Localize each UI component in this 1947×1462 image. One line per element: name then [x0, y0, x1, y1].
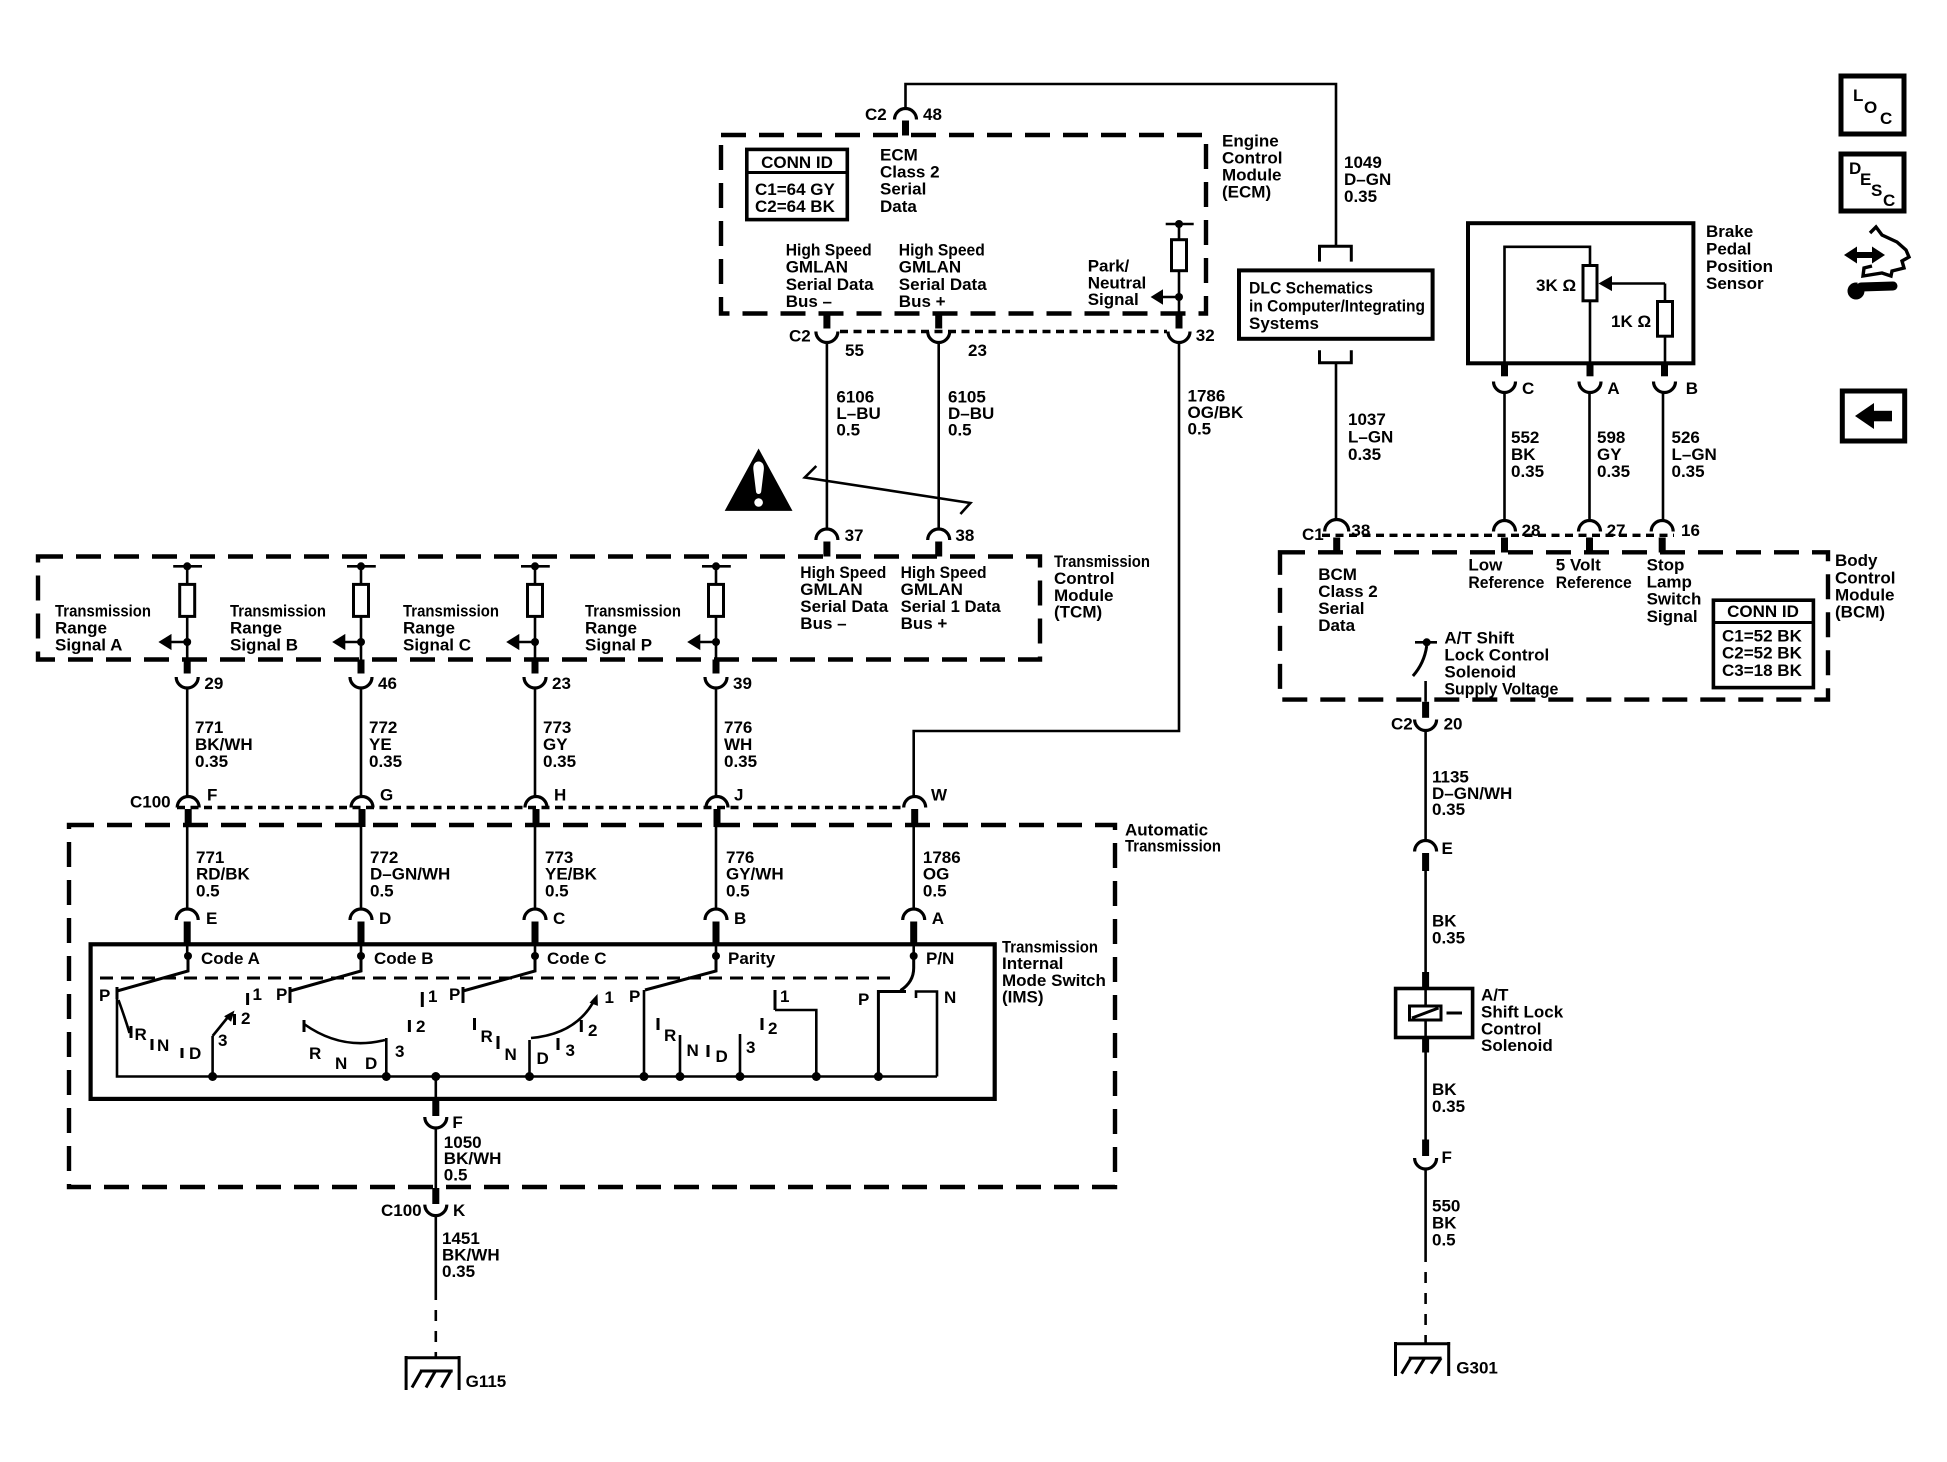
svg-text:Bus +: Bus +: [899, 292, 946, 311]
wire 6105 (pin 23 to TCM 38): [937, 343, 940, 530]
wire 552 BK: [1503, 393, 1506, 520]
svg-text:A: A: [932, 909, 944, 928]
wire 1786 OG: [912, 827, 915, 908]
sensor internal wire C to 3K: [1505, 247, 1591, 363]
connector F (IMS output): [425, 1101, 463, 1132]
connector D: [350, 909, 391, 956]
svg-text:Transmission: Transmission: [1125, 837, 1221, 856]
svg-text:0.35: 0.35: [543, 752, 576, 771]
wire 1135 D-GN/WH: [1424, 731, 1427, 841]
svg-text:Serial: Serial: [880, 180, 926, 199]
connector C2 48 at ECM top: [865, 105, 942, 136]
label 773 GY 0.35: [543, 718, 576, 771]
svg-text:37: 37: [845, 526, 864, 545]
label 1451 BK/WH 0.35: [442, 1229, 500, 1281]
icon LOC box: [1841, 76, 1904, 134]
connector 27 (BCM): [1579, 521, 1626, 553]
park/neutral signal arrow and junction: [1151, 289, 1183, 305]
svg-text:2: 2: [588, 1021, 597, 1040]
off-page bracket above DLC box: [1320, 246, 1352, 261]
svg-text:Code C: Code C: [547, 949, 607, 968]
svg-text:(ECM): (ECM): [1222, 183, 1271, 202]
resistor: transmission range signal B: [347, 562, 376, 659]
svg-text:0.35: 0.35: [195, 752, 228, 771]
svg-text:39: 39: [733, 674, 752, 693]
wire 776 GY/WH: [715, 827, 718, 908]
svg-text:C: C: [1880, 109, 1892, 128]
svg-text:0.35: 0.35: [1432, 800, 1465, 819]
svg-text:3K Ω: 3K Ω: [1536, 276, 1576, 295]
wire 1786 OG/BK (ECM 32 to C100 W): [914, 343, 1179, 797]
switch Code B: [276, 949, 437, 1077]
label Automatic Transmission: [1125, 820, 1221, 855]
wire 776 WH: [715, 688, 718, 797]
svg-text:16: 16: [1681, 521, 1700, 540]
svg-text:E: E: [1442, 839, 1453, 858]
IMS dashed position line: [100, 977, 897, 980]
svg-text:S: S: [1871, 181, 1882, 200]
label Transmission Internal Mode Switch (IMS): [1002, 937, 1106, 1006]
svg-text:46: 46: [378, 674, 397, 693]
warning triangle: [725, 449, 793, 511]
svg-text:0.35: 0.35: [1348, 445, 1381, 464]
Brake Pedal Position Sensor box: [1468, 223, 1693, 363]
label A/T Shift Lock Control Solenoid: [1481, 986, 1564, 1055]
svg-text:(BCM): (BCM): [1835, 603, 1885, 622]
switch Parity: [629, 949, 816, 1077]
svg-text:O: O: [1864, 98, 1877, 117]
svg-text:Solenoid: Solenoid: [1444, 663, 1516, 682]
svg-text:P: P: [276, 985, 287, 1004]
svg-text:G301: G301: [1456, 1359, 1498, 1378]
svg-text:3: 3: [746, 1038, 755, 1057]
svg-text:Signal: Signal: [1088, 290, 1139, 309]
label 772 YE 0.35: [369, 718, 402, 771]
svg-text:Brake: Brake: [1706, 222, 1753, 241]
label 771 RD/BK 0.5: [196, 848, 251, 901]
ECM CONN ID table: [747, 149, 848, 219]
svg-text:R: R: [309, 1044, 321, 1063]
connector pin 29: [176, 660, 223, 694]
svg-text:0.35: 0.35: [369, 752, 402, 771]
connector B: [705, 909, 746, 956]
arrow: range signal A output: [158, 634, 191, 650]
svg-text:Data: Data: [1318, 616, 1355, 635]
svg-text:L: L: [1853, 86, 1863, 105]
svg-text:C3=18 BK: C3=18 BK: [1722, 661, 1803, 680]
svg-text:2: 2: [241, 1009, 250, 1028]
svg-text:Signal A: Signal A: [55, 636, 122, 655]
connector C100 K: [381, 1188, 466, 1220]
icon DESC box: [1841, 154, 1904, 211]
sensor internal wire 1K bottom: [1664, 336, 1667, 363]
label 776 GY/WH 0.5: [726, 848, 784, 901]
inline connector E (shift lock): [1415, 839, 1453, 871]
svg-text:C2: C2: [789, 327, 811, 346]
label High Speed GMLAN Serial 1 Data Bus + (TCM): [901, 563, 1002, 633]
label BK 0.35 (lower): [1432, 1080, 1465, 1116]
svg-text:P: P: [449, 985, 460, 1004]
switch Code A: [99, 949, 262, 1077]
svg-text:L–GN: L–GN: [1348, 428, 1393, 447]
IMS box (Transmission Internal Mode Switch): [91, 944, 995, 1099]
wire BK 0.35 (to solenoid): [1424, 871, 1427, 974]
svg-text:3: 3: [566, 1041, 575, 1060]
svg-text:Reference: Reference: [1468, 573, 1544, 592]
svg-text:Signal: Signal: [1647, 607, 1698, 626]
svg-text:0.5: 0.5: [726, 882, 750, 901]
svg-text:1K Ω: 1K Ω: [1611, 312, 1651, 331]
label 1135 D-GN/WH 0.35: [1432, 768, 1512, 819]
label BCM Class 2 Serial Data: [1318, 565, 1378, 635]
svg-text:28: 28: [1522, 521, 1541, 540]
label Transmission Range Signal C: [403, 602, 499, 655]
label High Speed GMLAN Serial Data Bus - (TCM): [800, 563, 888, 633]
connector pin 32: [1168, 314, 1215, 345]
connector pin 39: [705, 660, 752, 694]
label A/T Shift Lock Control Solenoid Supply Voltage: [1444, 628, 1558, 698]
svg-text:Serial Data: Serial Data: [899, 275, 987, 294]
label 1037 L-GN 0.35: [1348, 410, 1393, 464]
label 772 D-GN/WH 0.5: [370, 848, 450, 901]
connector E: [176, 909, 217, 956]
svg-text:C1: C1: [1302, 525, 1324, 544]
svg-text:C2: C2: [1391, 715, 1413, 734]
sensor internal wire 3K bottom: [1589, 301, 1592, 364]
svg-text:C2=64 BK: C2=64 BK: [755, 197, 836, 216]
IMS output wire to connector F: [434, 1077, 437, 1102]
dashed ground lead to G301: [1424, 1251, 1427, 1344]
svg-text:P: P: [858, 990, 869, 1009]
svg-text:DLC Schematics: DLC Schematics: [1249, 279, 1373, 298]
label 1049 D-GN 0.35: [1344, 153, 1391, 206]
svg-text:3: 3: [218, 1031, 227, 1050]
label 1050 BK/WH 0.5: [444, 1133, 502, 1185]
svg-text:3: 3: [395, 1042, 404, 1061]
label 6106 L-BU 0.5: [836, 387, 880, 439]
connector 28 (BCM): [1494, 521, 1541, 553]
svg-text:CONN ID: CONN ID: [761, 153, 833, 172]
svg-text:H: H: [554, 786, 566, 805]
resistor: transmission range signal A: [173, 562, 202, 659]
inline connector C100 dotted row: [177, 806, 905, 809]
rail junction dots: [208, 1072, 883, 1081]
connector C100 J: [706, 786, 743, 828]
svg-text:R: R: [135, 1025, 147, 1044]
wire 771 RD/BK: [186, 827, 189, 908]
svg-text:0.35: 0.35: [1344, 187, 1377, 206]
svg-text:Class 2: Class 2: [880, 163, 940, 182]
svg-text:C: C: [553, 909, 565, 928]
wire 771 BK/WH: [186, 688, 189, 797]
switch Code C: [449, 949, 614, 1077]
connector pin 23: [928, 314, 987, 360]
svg-text:Low: Low: [1468, 556, 1503, 575]
svg-text:W: W: [931, 786, 948, 805]
A/T shift lock switch symbol in BCM: [1413, 638, 1437, 702]
svg-text:0.35: 0.35: [1672, 462, 1705, 481]
svg-text:D: D: [716, 1047, 728, 1066]
svg-text:N: N: [944, 988, 956, 1007]
svg-text:38: 38: [1351, 521, 1370, 540]
BCM connector dotted row: [1322, 534, 1674, 537]
label Engine Control Module (ECM): [1222, 131, 1282, 201]
ECM module dashed box: [721, 135, 1206, 314]
svg-text:Code B: Code B: [374, 949, 434, 968]
label Body Control Module (BCM): [1835, 551, 1895, 621]
connector pin 37 (TCM): [816, 526, 864, 557]
connector C1 38 (BCM): [1302, 520, 1370, 553]
crossing wires symbol: [805, 466, 971, 514]
svg-text:P/N: P/N: [926, 949, 954, 968]
svg-text:Reference: Reference: [1556, 573, 1632, 592]
wire 772 YE: [360, 688, 363, 797]
label 773 YE/BK 0.5: [545, 848, 598, 901]
label Low Reference: [1468, 556, 1544, 593]
label Transmission Range Signal B: [230, 602, 326, 655]
svg-text:Supply Voltage: Supply Voltage: [1444, 680, 1558, 699]
label High Speed GMLAN Serial Data Bus + (ECM right): [899, 241, 987, 312]
svg-text:B: B: [734, 909, 746, 928]
svg-text:C: C: [1522, 379, 1534, 398]
connector row C2 dotted line (pins 55/23/32): [840, 330, 1167, 333]
svg-text:F: F: [207, 786, 217, 805]
label Transmission Range Signal A: [55, 602, 151, 655]
label High Speed GMLAN Serial Data Bus - (ECM left): [786, 241, 874, 312]
svg-text:N: N: [157, 1036, 169, 1055]
svg-text:E: E: [206, 909, 217, 928]
wire 526 L-GN: [1662, 393, 1665, 520]
svg-text:0.5: 0.5: [444, 1166, 468, 1185]
svg-text:Data: Data: [880, 197, 917, 216]
svg-text:K: K: [453, 1201, 466, 1220]
svg-text:27: 27: [1607, 521, 1626, 540]
wire 1050 BK/WH: [434, 1128, 437, 1195]
svg-text:0.35: 0.35: [724, 752, 757, 771]
svg-text:Signal P: Signal P: [585, 636, 652, 655]
svg-text:C100: C100: [381, 1201, 422, 1220]
svg-text:48: 48: [923, 105, 942, 124]
connector pin 23 (TCM): [524, 660, 571, 694]
switch P/N: [858, 949, 956, 1077]
svg-text:Systems: Systems: [1249, 314, 1319, 333]
svg-text:1: 1: [780, 987, 789, 1006]
connector C: [524, 909, 565, 956]
label 776 WH 0.35: [724, 718, 757, 771]
connector pin 38 (TCM): [928, 526, 975, 557]
wire 6106 (pin 55 to TCM 37): [826, 343, 829, 530]
svg-text:C: C: [1883, 191, 1895, 210]
connector C100 H: [525, 786, 566, 828]
label 1786 OG/BK 0.5: [1188, 386, 1244, 438]
svg-text:55: 55: [845, 341, 864, 360]
wire: top run from ECM C2-48 to circuit 1049: [906, 84, 1337, 246]
svg-text:E: E: [1860, 170, 1871, 189]
svg-text:2: 2: [416, 1017, 425, 1036]
svg-text:Bus –: Bus –: [786, 292, 832, 311]
svg-text:0.5: 0.5: [923, 882, 947, 901]
label 1786 OG 0.5: [923, 848, 961, 901]
resistor 1K: [1611, 302, 1673, 337]
svg-text:G115: G115: [466, 1372, 507, 1391]
svg-text:ECM: ECM: [880, 145, 918, 164]
svg-text:5 Volt: 5 Volt: [1556, 556, 1601, 575]
svg-text:D: D: [537, 1049, 549, 1068]
svg-text:Module: Module: [1835, 585, 1895, 604]
label Transmission Control Module (TCM): [1054, 552, 1150, 622]
svg-text:D: D: [365, 1054, 377, 1073]
label 6105 D-BU 0.5: [948, 387, 994, 439]
svg-text:N: N: [687, 1041, 699, 1060]
svg-text:1: 1: [605, 988, 614, 1007]
svg-text:CONN ID: CONN ID: [1727, 602, 1799, 621]
label Park/Neutral Signal: [1088, 257, 1147, 309]
svg-text:F: F: [452, 1113, 462, 1132]
A/T Shift Lock Control Solenoid: [1396, 972, 1473, 1053]
resistor: transmission range signal C: [521, 562, 550, 659]
connector C (sensor): [1494, 363, 1535, 398]
svg-text:0.35: 0.35: [1511, 462, 1544, 481]
resistor: ECM park/neutral pull-up: [1166, 220, 1194, 314]
svg-text:J: J: [734, 786, 743, 805]
svg-text:Position: Position: [1706, 257, 1773, 276]
DLC Schematics box: [1239, 270, 1433, 338]
label Brake Pedal Position Sensor: [1706, 222, 1773, 293]
svg-text:0.5: 0.5: [836, 421, 860, 440]
arrow: range signal B output: [332, 634, 365, 650]
svg-text:Parity: Parity: [728, 949, 776, 968]
svg-text:29: 29: [204, 674, 223, 693]
svg-text:P: P: [629, 987, 640, 1006]
connector pin 46: [350, 660, 397, 694]
svg-text:D: D: [189, 1044, 201, 1063]
svg-text:0.35: 0.35: [1432, 1097, 1465, 1116]
svg-text:Serial Data: Serial Data: [786, 275, 874, 294]
BCM CONN ID table: [1713, 600, 1813, 687]
wire BK 0.35 (below solenoid): [1424, 1053, 1427, 1140]
svg-text:Signal B: Signal B: [230, 636, 298, 655]
label 5 Volt Reference: [1556, 556, 1632, 593]
svg-text:GMLAN: GMLAN: [899, 258, 961, 277]
label 598 GY 0.35: [1597, 428, 1630, 481]
ground G301: [1394, 1342, 1450, 1376]
svg-text:A: A: [1607, 379, 1619, 398]
svg-text:R: R: [664, 1026, 676, 1045]
svg-text:Signal C: Signal C: [403, 636, 471, 655]
svg-text:2: 2: [768, 1019, 777, 1038]
svg-text:F: F: [1442, 1148, 1452, 1167]
svg-text:0.5: 0.5: [1432, 1231, 1456, 1250]
svg-text:1: 1: [428, 987, 437, 1006]
svg-text:GMLAN: GMLAN: [786, 258, 848, 277]
svg-text:0.5: 0.5: [370, 882, 394, 901]
dashed ground lead to G115: [434, 1289, 437, 1357]
svg-text:Code A: Code A: [201, 949, 260, 968]
label BK 0.35 (upper): [1432, 912, 1465, 948]
svg-text:32: 32: [1196, 326, 1215, 345]
svg-text:1037: 1037: [1348, 410, 1386, 429]
IMS common bottom rail: [117, 997, 937, 1077]
svg-text:D: D: [379, 909, 391, 928]
ground G115: [405, 1356, 460, 1390]
wire 772 D-GN/WH: [360, 827, 363, 908]
connector A (sensor): [1579, 363, 1620, 398]
svg-text:G: G: [380, 786, 393, 805]
svg-text:in Computer/Integrating: in Computer/Integrating: [1249, 296, 1425, 315]
svg-text:(IMS): (IMS): [1002, 988, 1044, 1007]
svg-text:(TCM): (TCM): [1054, 603, 1102, 622]
connector 16 (BCM): [1651, 521, 1700, 553]
svg-text:Bus –: Bus –: [800, 614, 846, 633]
connector C100 G: [351, 786, 393, 828]
icon back arrow box: [1842, 391, 1904, 441]
TCM module dashed box: [38, 557, 1040, 660]
svg-text:Solenoid: Solenoid: [1481, 1036, 1553, 1055]
wire 1037 L-GN: [1335, 363, 1338, 520]
svg-text:0.35: 0.35: [442, 1262, 475, 1281]
arrow: range signal P output: [687, 634, 720, 650]
svg-text:0.5: 0.5: [196, 882, 220, 901]
connector C2 20 (BCM): [1391, 702, 1463, 734]
wire 550 BK 0.5: [1424, 1169, 1427, 1251]
svg-text:Bus +: Bus +: [901, 614, 948, 633]
svg-text:C2: C2: [865, 105, 887, 124]
icon data link arrows and wrench: [1844, 227, 1909, 300]
connector pin 55: [789, 314, 864, 360]
label 526 L-GN 0.35: [1672, 428, 1717, 481]
svg-text:20: 20: [1444, 715, 1463, 734]
arrow: range signal C output: [506, 634, 539, 650]
svg-text:R: R: [481, 1027, 493, 1046]
svg-text:0.5: 0.5: [545, 882, 569, 901]
svg-text:N: N: [335, 1054, 347, 1073]
wire 773 GY: [534, 688, 537, 797]
connector C100 F: [177, 786, 217, 828]
svg-text:1: 1: [253, 985, 262, 1004]
label ECM Class 2 Serial Data: [880, 145, 940, 216]
connector C100 W: [904, 786, 948, 828]
svg-text:P: P: [99, 986, 110, 1005]
svg-text:0.5: 0.5: [1188, 420, 1212, 439]
off-page bracket below DLC box: [1320, 350, 1352, 363]
wiper arrow from 1K to 3K: [1599, 276, 1666, 302]
label Transmission Range Signal P: [585, 602, 681, 655]
wire 773 YE/BK: [534, 827, 537, 908]
label 550 BK 0.5: [1432, 1197, 1460, 1250]
label 552 BK 0.35: [1511, 428, 1544, 481]
svg-text:38: 38: [955, 526, 974, 545]
svg-text:0.35: 0.35: [1432, 929, 1465, 948]
BCM module dashed box: [1280, 552, 1828, 699]
svg-text:0.5: 0.5: [948, 421, 972, 440]
svg-text:23: 23: [552, 674, 571, 693]
svg-text:Pedal: Pedal: [1706, 240, 1751, 259]
resistor: transmission range signal P: [702, 562, 731, 659]
connector A: [903, 909, 944, 956]
inline connector F (shift lock): [1415, 1140, 1452, 1170]
wire 1451 BK/WH: [434, 1216, 437, 1289]
wire 598 GY: [1588, 393, 1591, 520]
svg-text:B: B: [1686, 379, 1698, 398]
label Stop Lamp Switch Signal: [1647, 556, 1702, 626]
svg-text:Sensor: Sensor: [1706, 274, 1764, 293]
svg-text:0.35: 0.35: [1597, 462, 1630, 481]
label 771 BK/WH 0.35: [195, 718, 253, 771]
Automatic Transmission dashed box: [69, 825, 1115, 1187]
svg-text:C100: C100: [130, 793, 171, 812]
svg-text:N: N: [505, 1045, 517, 1064]
svg-text:23: 23: [968, 341, 987, 360]
